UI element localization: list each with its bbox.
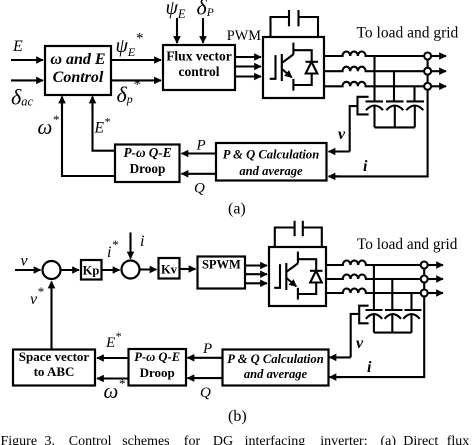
svg-text:(a): (a)	[228, 201, 246, 218]
svg-text:and average: and average	[239, 164, 303, 178]
svg-text:3.: 3.	[45, 434, 56, 445]
svg-text:v: v	[338, 126, 346, 143]
svg-text:and average: and average	[244, 367, 308, 381]
svg-text:PWM: PWM	[227, 28, 261, 44]
svg-text:inverter:: inverter:	[320, 434, 367, 445]
svg-text:Q: Q	[200, 385, 211, 401]
svg-text:ω*: ω*	[38, 112, 60, 139]
svg-text:ω and E: ω and E	[50, 51, 105, 68]
svg-text:flux: flux	[447, 434, 470, 445]
svg-text:To load and grid: To load and grid	[357, 236, 458, 253]
svg-text:to ABC: to ABC	[34, 364, 75, 379]
svg-text:Control: Control	[69, 434, 112, 445]
svg-text:P: P	[202, 341, 212, 357]
svg-text:δp*: δp*	[117, 77, 141, 107]
svg-text:E*: E*	[105, 329, 121, 351]
svg-text:P-ω Q-E: P-ω Q-E	[134, 350, 180, 364]
svg-text:Kp: Kp	[83, 264, 100, 278]
svg-text:schemes: schemes	[122, 434, 169, 445]
svg-text:DG: DG	[213, 434, 233, 445]
svg-text:control: control	[179, 64, 220, 79]
svg-text:(a): (a)	[381, 434, 397, 445]
svg-text:Q: Q	[194, 181, 205, 197]
svg-text:Direct: Direct	[403, 434, 438, 445]
svg-text:To load and grid: To load and grid	[357, 25, 459, 42]
svg-text:ψE*: ψE*	[116, 31, 144, 60]
svg-text:P & Q Calculation: P & Q Calculation	[223, 148, 319, 162]
svg-text:i: i	[363, 158, 368, 175]
svg-text:δP: δP	[197, 0, 214, 20]
svg-text:ψE: ψE	[166, 0, 186, 21]
svg-text:P-ω Q-E: P-ω Q-E	[124, 145, 172, 160]
svg-text:E*: E*	[94, 115, 110, 137]
svg-text:ω*: ω*	[104, 376, 126, 403]
svg-text:δac: δac	[11, 85, 33, 110]
svg-text:v: v	[356, 335, 364, 352]
svg-text:Figure: Figure	[1, 434, 38, 445]
svg-text:interfacing: interfacing	[245, 434, 306, 445]
svg-text:for: for	[184, 434, 201, 445]
svg-text:Droop: Droop	[130, 161, 166, 176]
svg-text:SPWM: SPWM	[202, 258, 241, 272]
svg-text:i: i	[367, 359, 372, 376]
svg-text:Droop: Droop	[140, 365, 175, 380]
svg-text:Kv: Kv	[161, 263, 178, 277]
svg-text:(b): (b)	[228, 408, 247, 425]
svg-text:v: v	[21, 253, 29, 270]
svg-text:Flux vector: Flux vector	[166, 49, 232, 64]
svg-text:i: i	[140, 233, 144, 250]
svg-text:E: E	[12, 38, 23, 55]
svg-text:v*: v*	[30, 284, 44, 308]
svg-text:P & Q Calculation: P & Q Calculation	[227, 352, 323, 366]
svg-text:Space vector: Space vector	[19, 349, 90, 364]
svg-text:i*: i*	[107, 237, 118, 261]
svg-text:Control: Control	[53, 69, 104, 86]
svg-text:P: P	[196, 138, 206, 154]
